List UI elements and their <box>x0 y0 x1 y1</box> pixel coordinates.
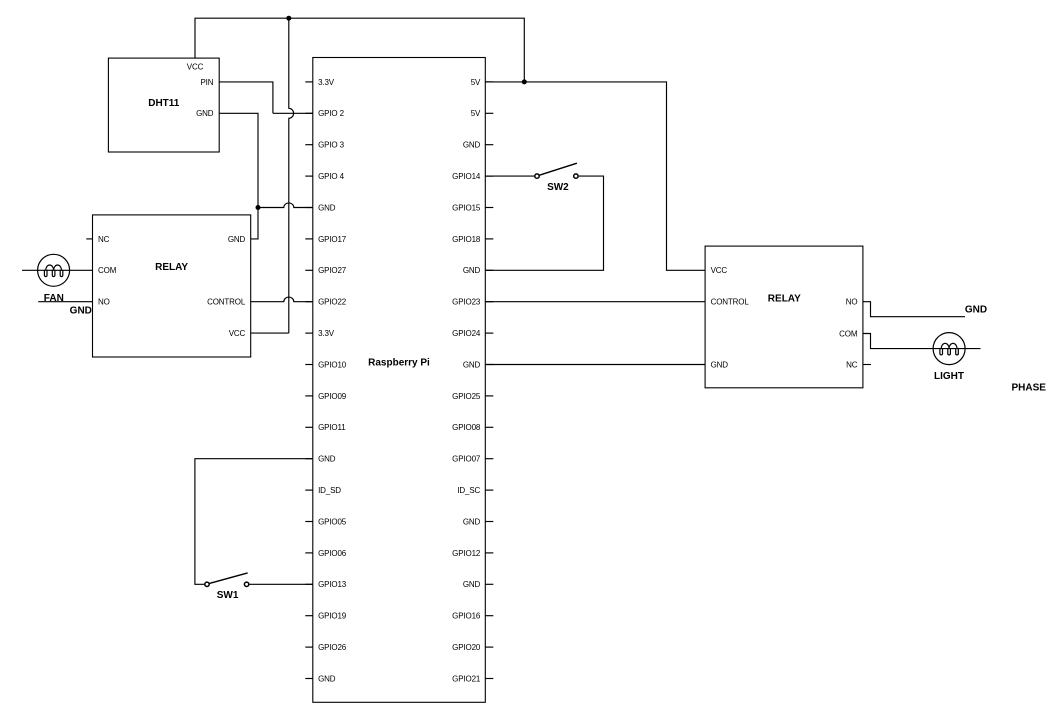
svg-text:GPIO09: GPIO09 <box>318 392 347 401</box>
svg-text:GPIO21: GPIO21 <box>452 674 481 683</box>
svg-text:GND: GND <box>196 109 214 118</box>
svg-text:GPIO15: GPIO15 <box>452 203 481 212</box>
svg-text:GND: GND <box>463 141 481 150</box>
svg-text:COM: COM <box>98 266 117 275</box>
svg-text:PIN: PIN <box>201 78 214 87</box>
svg-text:GND: GND <box>711 360 729 369</box>
svg-text:VCC: VCC <box>187 63 204 72</box>
svg-text:SW2: SW2 <box>547 182 569 193</box>
svg-text:GPIO 3: GPIO 3 <box>318 141 344 150</box>
svg-text:GPIO13: GPIO13 <box>318 580 347 589</box>
svg-text:5V: 5V <box>471 109 481 118</box>
svg-text:PHASE: PHASE <box>1011 382 1046 393</box>
svg-text:NC: NC <box>98 235 110 244</box>
svg-text:GPIO 2: GPIO 2 <box>318 109 344 118</box>
svg-text:NC: NC <box>846 360 858 369</box>
svg-text:GND: GND <box>463 517 481 526</box>
svg-text:GPIO12: GPIO12 <box>452 549 481 558</box>
svg-text:GPIO17: GPIO17 <box>318 235 347 244</box>
svg-text:ID_SC: ID_SC <box>457 486 480 495</box>
svg-text:SW1: SW1 <box>217 590 239 601</box>
svg-text:GPIO25: GPIO25 <box>452 392 481 401</box>
svg-text:GPIO10: GPIO10 <box>318 360 347 369</box>
svg-text:GPIO07: GPIO07 <box>452 455 481 464</box>
svg-text:CONTROL: CONTROL <box>711 298 750 307</box>
svg-text:GPIO26: GPIO26 <box>318 643 347 652</box>
svg-text:NO: NO <box>846 298 858 307</box>
svg-text:3.3V: 3.3V <box>318 329 335 338</box>
svg-text:GPIO05: GPIO05 <box>318 517 347 526</box>
svg-text:GPIO24: GPIO24 <box>452 329 481 338</box>
svg-text:LIGHT: LIGHT <box>934 371 964 382</box>
svg-text:GND: GND <box>463 360 481 369</box>
svg-text:GPIO27: GPIO27 <box>318 266 347 275</box>
svg-text:GPIO08: GPIO08 <box>452 423 481 432</box>
svg-text:GND: GND <box>965 305 987 316</box>
svg-text:GPIO20: GPIO20 <box>452 643 481 652</box>
svg-text:GPIO14: GPIO14 <box>452 172 481 181</box>
svg-text:RELAY: RELAY <box>768 294 801 305</box>
svg-text:RELAY: RELAY <box>155 262 188 273</box>
svg-text:ID_SD: ID_SD <box>318 486 341 495</box>
svg-text:GPIO18: GPIO18 <box>452 235 481 244</box>
svg-text:GND: GND <box>228 235 246 244</box>
svg-text:5V: 5V <box>471 78 481 87</box>
svg-text:GND: GND <box>318 203 336 212</box>
svg-text:GND: GND <box>318 455 336 464</box>
svg-text:GPIO11: GPIO11 <box>318 423 346 432</box>
svg-text:COM: COM <box>839 329 858 338</box>
svg-text:GND: GND <box>70 305 92 316</box>
svg-text:GPIO19: GPIO19 <box>318 612 347 621</box>
svg-text:CONTROL: CONTROL <box>207 298 246 307</box>
svg-text:NO: NO <box>98 298 110 307</box>
svg-text:GPIO16: GPIO16 <box>452 612 481 621</box>
svg-text:DHT11: DHT11 <box>148 98 180 109</box>
svg-text:3.3V: 3.3V <box>318 78 335 87</box>
svg-text:VCC: VCC <box>711 266 728 275</box>
svg-text:GPIO23: GPIO23 <box>452 298 481 307</box>
svg-text:GPIO22: GPIO22 <box>318 298 347 307</box>
svg-text:GPIO 4: GPIO 4 <box>318 172 344 181</box>
svg-text:Raspberry Pi: Raspberry Pi <box>368 358 430 369</box>
svg-text:VCC: VCC <box>229 329 246 338</box>
svg-text:GND: GND <box>463 580 481 589</box>
svg-text:GND: GND <box>463 266 481 275</box>
svg-text:GND: GND <box>318 674 336 683</box>
svg-text:GPIO06: GPIO06 <box>318 549 347 558</box>
svg-text:FAN: FAN <box>44 293 64 304</box>
